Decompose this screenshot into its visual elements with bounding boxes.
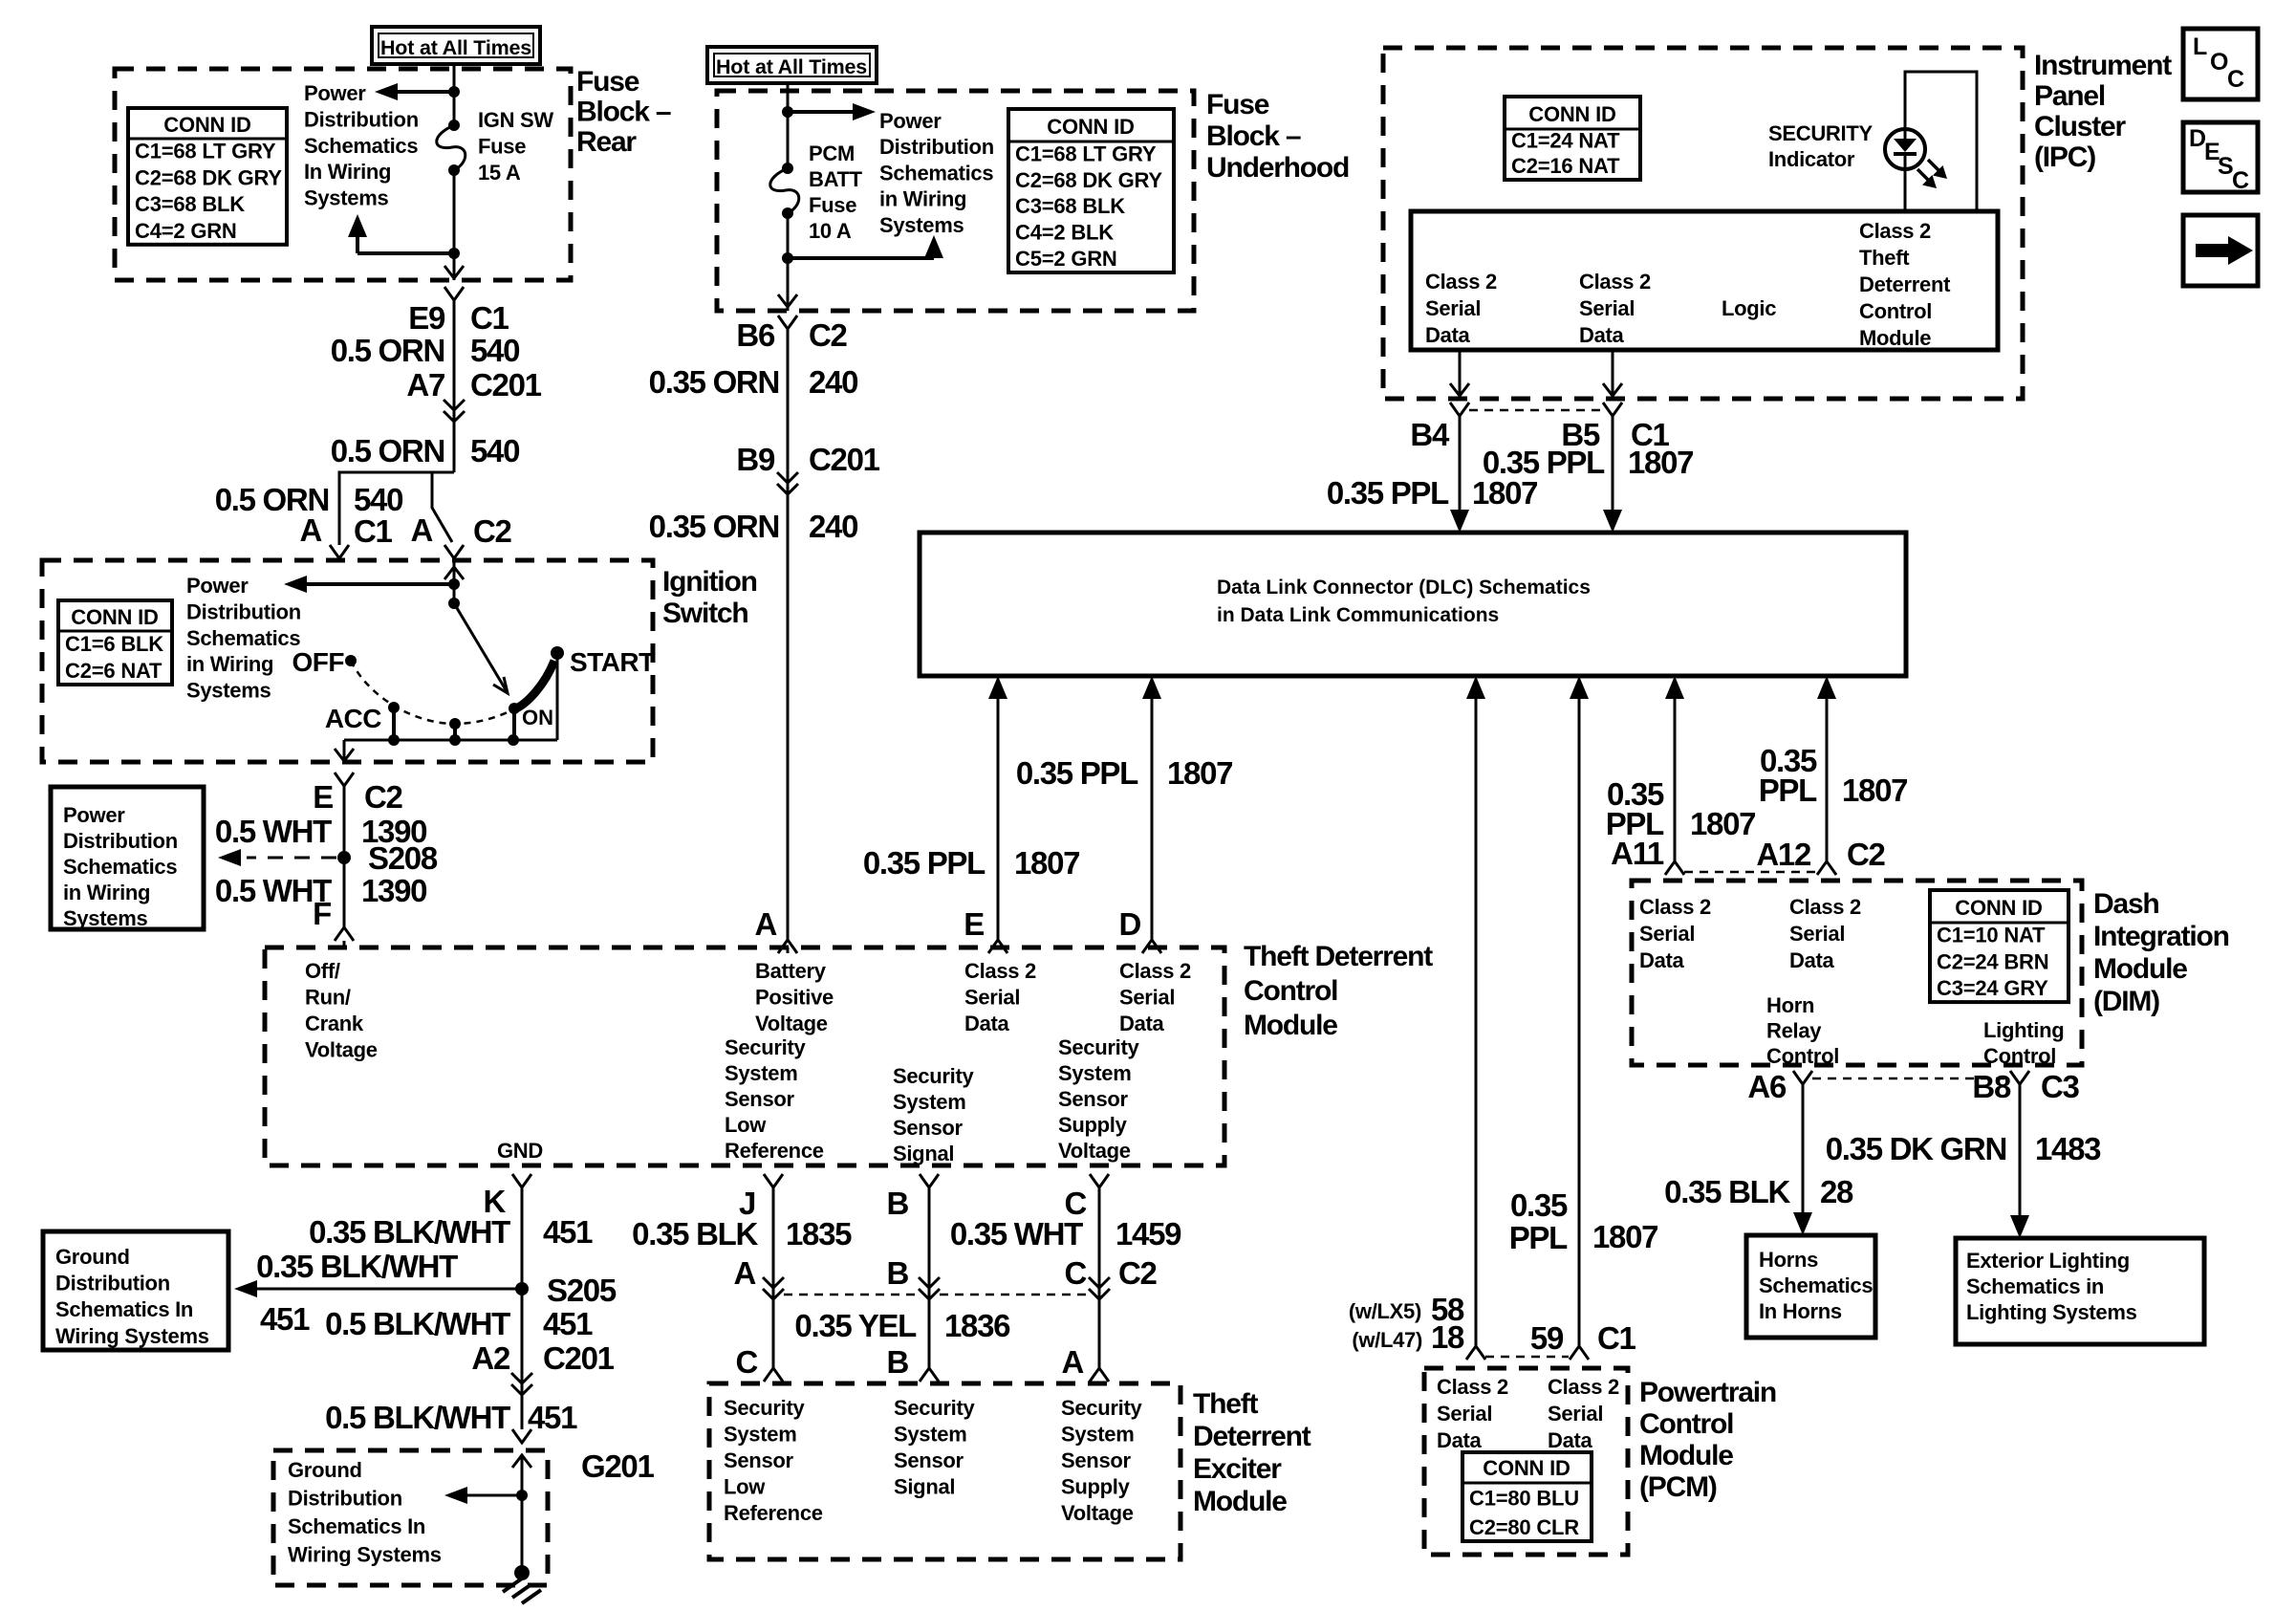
wire exiting fuse block underhood bbox=[787, 258, 790, 311]
svg-text:Class 2: Class 2 bbox=[1119, 959, 1191, 983]
theft deterrent control module dashed outline bbox=[265, 947, 1224, 1165]
svg-text:Wiring Systems: Wiring Systems bbox=[55, 1324, 209, 1348]
CONN ID table (IPC) bbox=[1505, 97, 1640, 180]
svg-text:(DIM): (DIM) bbox=[2093, 986, 2159, 1017]
svg-text:0.5 ORN: 0.5 ORN bbox=[331, 433, 444, 468]
fuse IGN SW 15 A bbox=[448, 120, 460, 131]
rotary travel dashed arc bbox=[351, 661, 516, 724]
IPC wire B5 to module edge bbox=[1612, 350, 1614, 397]
svg-text:Class 2: Class 2 bbox=[964, 959, 1036, 983]
svg-text:Serial: Serial bbox=[1548, 1402, 1603, 1426]
branch arrow to power distribution (ignition) bbox=[296, 582, 454, 586]
START contact drop line bbox=[556, 659, 559, 740]
svg-text:Module: Module bbox=[1639, 1440, 1733, 1471]
branch arrow to power distribution schematics bbox=[386, 90, 454, 94]
svg-text:Panel: Panel bbox=[2034, 80, 2105, 112]
svg-text:Underhood: Underhood bbox=[1206, 152, 1349, 184]
svg-text:1483: 1483 bbox=[2035, 1131, 2101, 1166]
svg-text:Control: Control bbox=[1639, 1408, 1733, 1440]
svg-text:Data: Data bbox=[1639, 948, 1685, 972]
ACC contact and stub bbox=[388, 702, 400, 713]
svg-text:E: E bbox=[313, 779, 333, 815]
svg-text:C2=6 NAT: C2=6 NAT bbox=[65, 659, 162, 683]
svg-text:Deterrent: Deterrent bbox=[1859, 272, 1951, 296]
svg-text:Serial: Serial bbox=[964, 986, 1020, 1010]
ignition switch dashed outline bbox=[42, 560, 653, 762]
svg-text:451: 451 bbox=[260, 1301, 310, 1337]
svg-text:451: 451 bbox=[543, 1306, 593, 1341]
wire from fuse to branch junction bbox=[787, 213, 790, 258]
dash integration module dashed outline bbox=[1632, 881, 2082, 1065]
svg-text:Theft Deterrent: Theft Deterrent bbox=[1244, 941, 1433, 972]
START contact bbox=[551, 646, 564, 660]
svg-text:B: B bbox=[886, 1186, 908, 1221]
svg-text:C1: C1 bbox=[470, 300, 509, 336]
svg-text:1807: 1807 bbox=[1592, 1219, 1657, 1254]
svg-text:S208: S208 bbox=[368, 840, 438, 876]
svg-text:Control: Control bbox=[1859, 299, 1932, 323]
svg-text:C3=68 BLK: C3=68 BLK bbox=[135, 192, 245, 216]
power distribution schematics box (left) bbox=[51, 787, 204, 929]
svg-text:0.5 BLK/WHT: 0.5 BLK/WHT bbox=[325, 1306, 510, 1341]
svg-text:Voltage: Voltage bbox=[1058, 1139, 1131, 1163]
splice branch to ignition switch connectors A/C1 and A/C2 bbox=[339, 472, 454, 545]
svg-text:540: 540 bbox=[354, 482, 402, 517]
svg-text:B6: B6 bbox=[736, 317, 775, 353]
svg-text:0.5 ORN: 0.5 ORN bbox=[331, 333, 444, 368]
svg-text:1807: 1807 bbox=[1167, 755, 1232, 791]
svg-text:0.5 BLK/WHT: 0.5 BLK/WHT bbox=[325, 1400, 510, 1435]
svg-text:0.35 YEL: 0.35 YEL bbox=[794, 1308, 917, 1343]
svg-text:C2=24 BRN: C2=24 BRN bbox=[1937, 949, 2048, 973]
svg-text:C1=68 LT GRY: C1=68 LT GRY bbox=[135, 140, 276, 163]
connector fork A at TDCM bbox=[778, 940, 797, 953]
svg-text:Hot at All Times: Hot at All Times bbox=[380, 36, 531, 59]
svg-text:C2=68 DK GRY: C2=68 DK GRY bbox=[135, 165, 282, 189]
svg-text:Systems: Systems bbox=[186, 679, 271, 703]
svg-text:Rear: Rear bbox=[576, 126, 637, 158]
svg-text:Dash: Dash bbox=[2093, 888, 2159, 920]
svg-text:0.35 BLK: 0.35 BLK bbox=[1664, 1174, 1790, 1209]
wire from hot feed into IGN SW fuse bbox=[453, 64, 456, 125]
svg-text:Schematics: Schematics bbox=[879, 161, 993, 185]
svg-text:PPL: PPL bbox=[1509, 1220, 1568, 1255]
svg-text:Fuse: Fuse bbox=[478, 135, 526, 159]
class 2 serial data wire A11 from DLC bbox=[1674, 699, 1677, 861]
branch with up arrow to other schematics bbox=[357, 251, 454, 255]
svg-text:Serial: Serial bbox=[1119, 986, 1175, 1010]
splice S205 bbox=[515, 1282, 529, 1295]
svg-text:Sensor: Sensor bbox=[894, 1448, 964, 1472]
svg-text:C1=10 NAT: C1=10 NAT bbox=[1937, 924, 2046, 947]
svg-text:Fuse: Fuse bbox=[576, 66, 639, 98]
svg-text:CONN ID: CONN ID bbox=[71, 605, 159, 629]
svg-text:Control: Control bbox=[1983, 1044, 2056, 1068]
svg-text:Sensor: Sensor bbox=[1058, 1087, 1129, 1111]
connector fork B5 bbox=[1603, 403, 1622, 416]
svg-text:C: C bbox=[2227, 66, 2244, 93]
bus exit wire with arrowhead bbox=[343, 740, 346, 762]
svg-text:Integration: Integration bbox=[2093, 921, 2229, 952]
svg-text:1835: 1835 bbox=[786, 1216, 852, 1252]
svg-text:0.5 WHT: 0.5 WHT bbox=[215, 814, 332, 849]
svg-text:Data: Data bbox=[1119, 1012, 1165, 1035]
svg-text:S205: S205 bbox=[547, 1273, 617, 1308]
instrument panel cluster dashed outline bbox=[1383, 48, 2023, 399]
svg-text:Ground: Ground bbox=[55, 1245, 130, 1269]
svg-text:A11: A11 bbox=[1611, 836, 1664, 871]
svg-text:Ground: Ground bbox=[288, 1458, 362, 1482]
svg-text:C2: C2 bbox=[809, 317, 848, 353]
svg-text:A: A bbox=[754, 906, 776, 942]
svg-text:Logic: Logic bbox=[1722, 296, 1776, 320]
svg-text:PPL: PPL bbox=[1759, 773, 1817, 808]
svg-text:Schematics In: Schematics In bbox=[55, 1297, 193, 1321]
wire B5 down to DLC bbox=[1612, 416, 1614, 510]
in-line sensor connector chevrons and link bbox=[763, 1277, 784, 1288]
svg-text:Distribution: Distribution bbox=[55, 1272, 170, 1295]
svg-text:ON: ON bbox=[522, 706, 553, 729]
svg-text:CONN ID: CONN ID bbox=[1955, 896, 2043, 920]
svg-text:Ignition: Ignition bbox=[662, 566, 757, 598]
LED supply loop bbox=[1905, 72, 1977, 211]
svg-text:In Wiring: In Wiring bbox=[304, 160, 391, 184]
svg-text:240: 240 bbox=[809, 364, 857, 400]
svg-text:Power: Power bbox=[186, 574, 249, 598]
svg-text:Distribution: Distribution bbox=[288, 1487, 402, 1511]
connector fork C below TDCM bbox=[1090, 1174, 1109, 1187]
svg-text:C2=80 CLR: C2=80 CLR bbox=[1469, 1515, 1579, 1539]
svg-text:Sensor: Sensor bbox=[893, 1116, 964, 1140]
svg-text:Signal: Signal bbox=[893, 1142, 954, 1165]
connector fork B4 bbox=[1450, 403, 1469, 416]
connector fork at G201 bbox=[512, 1429, 531, 1443]
svg-text:Voltage: Voltage bbox=[305, 1038, 378, 1062]
junction node on underhood feed bbox=[782, 106, 793, 118]
svg-text:C2: C2 bbox=[473, 513, 512, 549]
svg-text:C201: C201 bbox=[809, 442, 880, 477]
svg-text:Sensor: Sensor bbox=[1061, 1448, 1132, 1472]
connector link dashes A11-A12 bbox=[1684, 871, 1816, 874]
svg-text:CONN ID: CONN ID bbox=[163, 113, 251, 137]
svg-text:0.35 ORN: 0.35 ORN bbox=[649, 509, 779, 544]
svg-text:C: C bbox=[735, 1344, 757, 1380]
svg-text:Class 2: Class 2 bbox=[1437, 1375, 1508, 1399]
svg-text:BATT: BATT bbox=[809, 167, 863, 191]
svg-text:Supply: Supply bbox=[1061, 1475, 1131, 1499]
svg-text:18: 18 bbox=[1431, 1319, 1464, 1355]
svg-text:Theft: Theft bbox=[1193, 1388, 1259, 1420]
svg-text:START: START bbox=[570, 647, 655, 677]
svg-text:C3=68 BLK: C3=68 BLK bbox=[1015, 194, 1125, 218]
svg-text:Systems: Systems bbox=[879, 213, 964, 237]
in-line connector C201 chevrons (orn wire) bbox=[777, 472, 798, 483]
svg-text:Distribution: Distribution bbox=[63, 829, 178, 853]
switch output bus bbox=[344, 739, 557, 742]
svg-text:451: 451 bbox=[543, 1214, 593, 1250]
svg-text:PCM: PCM bbox=[809, 142, 855, 165]
svg-text:Lighting Systems: Lighting Systems bbox=[1966, 1300, 2137, 1324]
svg-text:Class 2: Class 2 bbox=[1859, 219, 1931, 243]
svg-text:1807: 1807 bbox=[1628, 445, 1693, 480]
svg-text:0.35 BLK: 0.35 BLK bbox=[632, 1216, 758, 1252]
svg-text:Battery: Battery bbox=[755, 959, 827, 983]
CONN ID table (fuse block underhood) bbox=[1008, 109, 1174, 272]
wire entering ignition switch bbox=[453, 560, 456, 584]
security indicator LED bbox=[1885, 129, 1925, 169]
svg-text:Wiring Systems: Wiring Systems bbox=[288, 1543, 442, 1567]
fuse PCM BATT 10 A bbox=[782, 163, 793, 174]
svg-text:Security: Security bbox=[725, 1035, 806, 1059]
splice S208 bbox=[337, 851, 351, 864]
svg-text:(w/LX5): (w/LX5) bbox=[1349, 1299, 1421, 1323]
svg-text:Relay: Relay bbox=[1766, 1019, 1822, 1043]
svg-text:Power: Power bbox=[63, 803, 125, 827]
svg-text:System: System bbox=[1061, 1423, 1134, 1447]
svg-text:Horns: Horns bbox=[1759, 1248, 1818, 1272]
svg-text:Switch: Switch bbox=[662, 598, 747, 629]
svg-text:1807: 1807 bbox=[1472, 475, 1537, 511]
svg-text:B9: B9 bbox=[736, 442, 775, 477]
svg-text:Schematics In: Schematics In bbox=[288, 1514, 425, 1538]
svg-text:G201: G201 bbox=[581, 1448, 654, 1484]
svg-text:C1=80 BLU: C1=80 BLU bbox=[1469, 1487, 1579, 1511]
svg-text:Run/: Run/ bbox=[305, 986, 351, 1010]
svg-text:Module: Module bbox=[1193, 1486, 1287, 1517]
connector forks at PCM bbox=[1466, 1346, 1485, 1360]
branch wire with arrow to ground distribution bbox=[256, 1288, 522, 1291]
svg-text:Schematics: Schematics bbox=[1759, 1274, 1873, 1297]
svg-text:Distribution: Distribution bbox=[304, 107, 419, 131]
in-line connector E9/C1 fork bbox=[444, 287, 464, 300]
svg-text:B: B bbox=[886, 1255, 908, 1291]
svg-text:(PCM): (PCM) bbox=[1639, 1471, 1717, 1503]
connector fork B below TDCM bbox=[920, 1174, 939, 1187]
svg-text:C2: C2 bbox=[364, 779, 403, 815]
class 2 serial data wire to PCM (59/C1) bbox=[1578, 699, 1581, 1346]
svg-text:Sensor: Sensor bbox=[724, 1448, 794, 1472]
wire from hot feed into PCM BATT fuse bbox=[787, 83, 790, 168]
wire from fuse to lower junction bbox=[453, 170, 456, 253]
svg-text:O: O bbox=[2210, 49, 2228, 76]
branch arrow right to power distribution bbox=[788, 110, 854, 114]
svg-text:0.35 DK GRN: 0.35 DK GRN bbox=[1826, 1131, 2006, 1166]
svg-text:Voltage: Voltage bbox=[1061, 1501, 1134, 1525]
in-line connector C201 double chevron bbox=[444, 400, 465, 410]
svg-text:F: F bbox=[313, 896, 331, 931]
connector forks at exciter module bbox=[764, 1368, 783, 1382]
LOC legend box bbox=[2183, 29, 2258, 99]
switch common feed bbox=[453, 584, 456, 603]
data link connector (DLC) box bbox=[920, 533, 1906, 676]
svg-text:A: A bbox=[733, 1255, 755, 1291]
connector fork A6 below DIM bbox=[1793, 1071, 1812, 1084]
svg-text:in Data Link Communications: in Data Link Communications bbox=[1217, 604, 1499, 626]
svg-text:C: C bbox=[1064, 1255, 1086, 1291]
DESC legend box bbox=[2183, 122, 2258, 192]
class 2 serial data wire D to DLC bbox=[1151, 699, 1154, 940]
svg-text:Distribution: Distribution bbox=[879, 135, 994, 159]
svg-text:Indicator: Indicator bbox=[1768, 147, 1855, 171]
connector fork E/C2 below ignition switch bbox=[335, 773, 354, 786]
svg-text:Block –: Block – bbox=[576, 97, 671, 128]
fuse block underhood dashed outline bbox=[717, 91, 1194, 311]
svg-text:Data: Data bbox=[1437, 1428, 1483, 1452]
svg-text:System: System bbox=[725, 1061, 797, 1085]
svg-text:10 A: 10 A bbox=[809, 219, 852, 243]
svg-text:Distribution: Distribution bbox=[186, 599, 301, 623]
svg-text:B8: B8 bbox=[1972, 1069, 2011, 1104]
IPC wire B4 to module edge bbox=[1459, 350, 1462, 397]
svg-text:0.35 PPL: 0.35 PPL bbox=[1016, 755, 1138, 791]
branch arrow inside G201 bbox=[516, 1490, 528, 1501]
svg-text:Module: Module bbox=[1859, 326, 1931, 350]
thick arc to START bbox=[514, 661, 554, 709]
theft deterrent exciter module dashed outline bbox=[709, 1383, 1180, 1559]
svg-text:Block –: Block – bbox=[1206, 120, 1301, 152]
svg-text:Serial: Serial bbox=[1789, 922, 1845, 946]
svg-text:59: 59 bbox=[1530, 1320, 1564, 1356]
svg-text:Class 2: Class 2 bbox=[1789, 895, 1861, 919]
svg-text:Voltage: Voltage bbox=[755, 1012, 828, 1035]
svg-text:C1=68 LT GRY: C1=68 LT GRY bbox=[1015, 142, 1157, 165]
wire exiting fuse block rear with arrowhead bbox=[453, 253, 456, 280]
junction node to power distribution branch bbox=[448, 578, 460, 590]
ground distribution box (left) bbox=[43, 1231, 228, 1350]
svg-text:Off/: Off/ bbox=[305, 959, 340, 983]
svg-text:Hot at All Times: Hot at All Times bbox=[716, 55, 867, 78]
svg-text:540: 540 bbox=[470, 433, 519, 468]
connector fork B8 below DIM bbox=[2010, 1071, 2029, 1084]
svg-text:Class 2: Class 2 bbox=[1579, 270, 1651, 294]
svg-text:System: System bbox=[1058, 1061, 1131, 1085]
svg-text:in Wiring: in Wiring bbox=[879, 187, 966, 211]
svg-text:System: System bbox=[724, 1423, 796, 1447]
svg-text:SECURITY: SECURITY bbox=[1768, 121, 1873, 145]
svg-text:Schematics: Schematics bbox=[304, 134, 418, 158]
svg-text:C2=16 NAT: C2=16 NAT bbox=[1511, 154, 1620, 178]
svg-text:C3: C3 bbox=[2041, 1069, 2080, 1104]
CONN ID table (ignition switch) bbox=[58, 600, 172, 685]
svg-text:A6: A6 bbox=[1747, 1069, 1787, 1104]
LED to logic module wire bbox=[1904, 169, 1907, 211]
svg-text:240: 240 bbox=[809, 509, 857, 544]
class 2 serial data wire A12 from DLC bbox=[1826, 699, 1829, 861]
svg-text:Power: Power bbox=[879, 109, 942, 133]
svg-text:C2=68 DK GRY: C2=68 DK GRY bbox=[1015, 168, 1162, 192]
svg-text:in Wiring: in Wiring bbox=[186, 652, 273, 676]
svg-text:15 A: 15 A bbox=[478, 161, 521, 185]
connector fork F at theft deterrent module bbox=[335, 927, 354, 941]
svg-text:Serial: Serial bbox=[1639, 922, 1695, 946]
svg-text:Security: Security bbox=[1058, 1035, 1139, 1059]
svg-text:1807: 1807 bbox=[1842, 773, 1907, 808]
svg-text:0.35 BLK/WHT: 0.35 BLK/WHT bbox=[309, 1214, 510, 1250]
svg-text:1836: 1836 bbox=[944, 1308, 1010, 1343]
svg-text:Fuse: Fuse bbox=[1206, 89, 1269, 120]
svg-text:1807: 1807 bbox=[1690, 806, 1755, 841]
svg-text:Control: Control bbox=[1766, 1044, 1839, 1068]
svg-text:1807: 1807 bbox=[1014, 845, 1079, 881]
svg-text:Security: Security bbox=[893, 1064, 974, 1088]
svg-text:ACC: ACC bbox=[325, 704, 381, 733]
svg-text:Module: Module bbox=[1244, 1010, 1337, 1041]
svg-text:Class 2: Class 2 bbox=[1425, 270, 1497, 294]
junction node on feed wire bbox=[448, 86, 460, 98]
svg-text:Security: Security bbox=[1061, 1396, 1142, 1420]
svg-text:Data Link Connector (DLC) Sche: Data Link Connector (DLC) Schematics bbox=[1217, 577, 1591, 599]
svg-text:28: 28 bbox=[1820, 1174, 1853, 1209]
fuse block rear dashed outline bbox=[115, 69, 571, 280]
svg-text:(IPC): (IPC) bbox=[2034, 142, 2095, 173]
svg-text:Data: Data bbox=[1789, 948, 1835, 972]
svg-text:D: D bbox=[1118, 906, 1140, 942]
ground G201 symbol bbox=[514, 1565, 530, 1580]
svg-text:Serial: Serial bbox=[1425, 296, 1481, 320]
svg-text:Data: Data bbox=[1579, 323, 1625, 347]
svg-text:0.35 WHT: 0.35 WHT bbox=[950, 1216, 1083, 1252]
svg-text:Power: Power bbox=[304, 81, 366, 105]
branch with up arrow (underhood) bbox=[788, 256, 934, 260]
connector fork A/C2 bbox=[444, 545, 464, 558]
svg-text:Positive: Positive bbox=[755, 986, 834, 1010]
svg-text:Data: Data bbox=[1425, 323, 1471, 347]
svg-text:C2: C2 bbox=[1847, 837, 1886, 872]
switch wiper arrow toward ON bbox=[454, 603, 507, 691]
connector fork J below TDCM bbox=[764, 1174, 783, 1187]
svg-text:1459: 1459 bbox=[1116, 1216, 1181, 1252]
svg-text:C2: C2 bbox=[1118, 1255, 1158, 1291]
svg-text:System: System bbox=[894, 1423, 966, 1447]
svg-text:Crank: Crank bbox=[305, 1012, 364, 1035]
svg-text:A2: A2 bbox=[471, 1340, 510, 1376]
svg-text:0.35: 0.35 bbox=[1510, 1187, 1568, 1223]
svg-text:C201: C201 bbox=[543, 1340, 615, 1376]
svg-text:Theft: Theft bbox=[1859, 246, 1910, 270]
svg-text:C4=2 BLK: C4=2 BLK bbox=[1015, 221, 1114, 245]
svg-text:Fuse: Fuse bbox=[809, 193, 856, 217]
svg-text:C3=24 GRY: C3=24 GRY bbox=[1937, 976, 2048, 1000]
svg-text:1390: 1390 bbox=[361, 873, 426, 908]
svg-text:Security: Security bbox=[894, 1396, 975, 1420]
dashed branch with arrow to power distribution bbox=[247, 857, 336, 860]
svg-text:Low: Low bbox=[724, 1475, 766, 1499]
mid contact and stub bbox=[449, 718, 461, 729]
in-line connector C201 double chevron (ground) bbox=[511, 1373, 532, 1383]
svg-text:Signal: Signal bbox=[894, 1475, 955, 1499]
power feed box: Hot at All Times (rear fuse block) bbox=[372, 27, 540, 64]
svg-text:Schematics: Schematics bbox=[63, 855, 177, 879]
svg-text:Powertrain: Powertrain bbox=[1639, 1377, 1776, 1408]
CONN ID table (DIM) bbox=[1930, 890, 2069, 1002]
connector forks A11 A12 at DIM bbox=[1665, 861, 1684, 875]
svg-text:Sensor: Sensor bbox=[725, 1087, 795, 1111]
svg-text:E9: E9 bbox=[408, 300, 445, 336]
svg-text:GND: GND bbox=[497, 1139, 543, 1163]
G201 dashed outline bbox=[273, 1450, 548, 1585]
svg-text:Reference: Reference bbox=[725, 1139, 824, 1163]
svg-text:C1: C1 bbox=[1597, 1320, 1636, 1356]
svg-text:B4: B4 bbox=[1410, 417, 1450, 452]
svg-text:Class 2: Class 2 bbox=[1548, 1375, 1619, 1399]
svg-text:A: A bbox=[1061, 1344, 1083, 1380]
svg-text:System: System bbox=[893, 1090, 965, 1114]
svg-text:C1=6 BLK: C1=6 BLK bbox=[65, 632, 163, 656]
svg-text:0.35 PPL: 0.35 PPL bbox=[863, 845, 986, 881]
svg-text:Serial: Serial bbox=[1579, 296, 1635, 320]
next-page arrow legend box bbox=[2183, 215, 2258, 286]
svg-text:E: E bbox=[964, 906, 984, 942]
